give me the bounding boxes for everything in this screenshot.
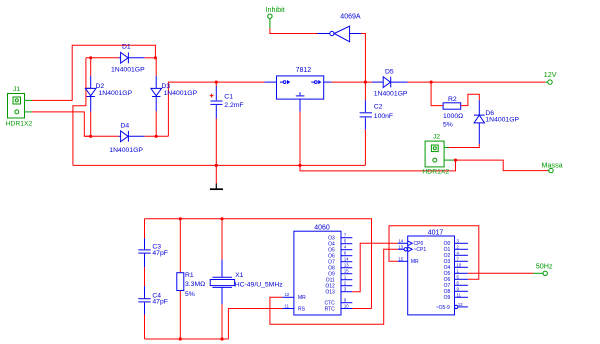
svg-text:HDR1X2: HDR1X2	[6, 121, 33, 128]
pin 11 O9	[455, 296, 468, 298]
pin 5 O4	[341, 243, 352, 245]
wire R2 to D6 top	[461, 94, 480, 105]
wire rail down to R2	[431, 82, 443, 106]
junction X1 top rail	[220, 217, 223, 220]
pin 15 O9	[341, 273, 352, 275]
junction R2 branch on rail	[430, 81, 433, 84]
svg-text:10: 10	[457, 262, 462, 267]
inverter U1 4069A	[317, 14, 361, 42]
svg-text:HDR1X2: HDR1X2	[422, 168, 449, 175]
junction C1 bottom rail	[215, 164, 218, 167]
diode D1	[111, 44, 145, 74]
regulator U2 7812	[265, 67, 332, 112]
wire oscillator top rail	[145, 219, 372, 309]
svg-text:7812: 7812	[296, 67, 312, 74]
wire 7812 ground lead	[299, 112, 301, 166]
wire bridge top	[86, 57, 119, 59]
pin 1 O5	[455, 272, 468, 274]
diode D2	[85, 76, 132, 112]
wire C2 leads	[364, 82, 366, 100]
svg-text:15: 15	[398, 256, 403, 261]
svg-text:C1: C1	[224, 93, 233, 100]
pin 4 O5	[341, 249, 352, 251]
ground	[210, 165, 223, 189]
wire oscillator bottom rail	[145, 338, 229, 340]
wire 4060 MR to 4017 CP1	[270, 249, 398, 324]
svg-text:D1: D1	[122, 44, 131, 51]
svg-text:4017: 4017	[428, 230, 444, 237]
wire ground rail	[73, 164, 366, 166]
svg-text:11: 11	[457, 292, 462, 297]
svg-text:13: 13	[344, 263, 349, 268]
wire X1 column	[221, 219, 223, 260]
junction C1 top	[215, 81, 218, 84]
svg-text:11: 11	[285, 303, 290, 308]
capacitor C1	[210, 82, 244, 165]
pin 2 O12	[341, 285, 352, 287]
wire C3 C4 column	[144, 219, 146, 239]
wire DC output riser	[168, 82, 264, 136]
wire 7812 output rail to 12V	[332, 81, 372, 83]
node Massa	[542, 160, 563, 172]
svg-text:5%: 5%	[443, 122, 453, 129]
svg-text:1000Ω: 1000Ω	[443, 113, 463, 120]
svg-text:~O5-9: ~O5-9	[436, 305, 450, 311]
pin 7 O3	[455, 260, 468, 262]
svg-text:RTC: RTC	[325, 306, 336, 312]
pin 14 O7	[341, 261, 352, 263]
node Inhibit	[266, 5, 285, 28]
svg-text:C2: C2	[374, 104, 383, 111]
svg-text:R2: R2	[448, 96, 457, 103]
svg-text:13: 13	[398, 244, 403, 249]
svg-text:50Hz: 50Hz	[536, 261, 553, 270]
svg-text:R1: R1	[185, 272, 194, 279]
svg-text:HC-49/U_5MHz: HC-49/U_5MHz	[235, 281, 284, 288]
IC U3 4060	[282, 225, 352, 315]
svg-text:J2: J2	[433, 133, 440, 140]
svg-text:47pF: 47pF	[152, 299, 168, 306]
svg-text:1N4001GP: 1N4001GP	[485, 116, 519, 123]
junction massa link	[454, 159, 457, 162]
svg-text:4060: 4060	[314, 225, 330, 232]
junction bridge top-right	[154, 56, 157, 59]
pin 3 O13	[341, 291, 352, 293]
pin 13 CP1	[398, 248, 404, 250]
diode D5	[372, 69, 408, 98]
svg-text:100nF: 100nF	[374, 113, 393, 120]
pin 11 RS	[282, 308, 294, 310]
wire R1 column	[179, 219, 181, 273]
resistor R2	[443, 96, 463, 128]
crystal X1	[210, 260, 283, 305]
svg-text:~CP1: ~CP1	[414, 247, 427, 253]
pin 14 CP0	[398, 242, 408, 244]
wire J2 pin2 to Massa	[454, 160, 548, 171]
pin 5 O6	[455, 278, 468, 280]
svg-text:X1: X1	[235, 272, 244, 279]
pin 9 CTC	[341, 302, 352, 304]
pin 12 MR	[282, 296, 294, 298]
wire D6 bottom to J2 pin1	[449, 144, 480, 147]
wire D3 leads	[155, 58, 157, 76]
wire bridge bottom	[84, 135, 118, 137]
junction inverter column on rail	[364, 81, 367, 84]
wire J1 pin2 to bridge bottom	[32, 112, 91, 136]
svg-text:4069A: 4069A	[340, 14, 361, 21]
wire D2 leads	[90, 58, 92, 76]
svg-text:O9: O9	[444, 295, 451, 301]
svg-text:1N4001GP: 1N4001GP	[111, 66, 145, 73]
svg-text:1N4001GP: 1N4001GP	[109, 147, 143, 154]
svg-text:1N4001GP: 1N4001GP	[99, 90, 133, 97]
diode D6	[474, 100, 519, 144]
pin 6 O6	[341, 255, 352, 257]
pin 4 O2	[455, 254, 468, 256]
svg-text:1N4001GP: 1N4001GP	[164, 90, 198, 97]
wire O5 to 50Hz	[468, 272, 534, 274]
svg-text:2.2mF: 2.2mF	[224, 102, 243, 109]
resistor R1	[177, 272, 205, 298]
connector J2	[422, 133, 454, 175]
pin 6 O7	[455, 284, 468, 286]
capacitor C3	[138, 238, 168, 267]
junction R1 bottom rail	[179, 337, 182, 340]
node 12V	[544, 70, 557, 84]
svg-text:D3: D3	[162, 83, 171, 90]
svg-text:12: 12	[285, 292, 290, 297]
svg-text:MR: MR	[298, 295, 306, 301]
diode D4	[109, 122, 144, 154]
svg-text:5%: 5%	[185, 291, 195, 298]
svg-text:RS: RS	[298, 306, 306, 312]
junction X1 bottom rail	[220, 337, 223, 340]
svg-text:MR: MR	[411, 259, 419, 265]
junction bridge bottom-left	[89, 135, 92, 138]
pin 2 O1	[455, 248, 468, 250]
svg-text:14: 14	[344, 257, 349, 262]
svg-text:14: 14	[398, 238, 403, 243]
pin 1 O11	[341, 279, 352, 281]
node 50Hz	[533, 261, 553, 275]
svg-text:Inhibit: Inhibit	[266, 5, 285, 14]
capacitor C2	[360, 100, 393, 130]
svg-text:D4: D4	[121, 122, 130, 129]
wire Inhibit to inverter	[270, 28, 317, 34]
svg-text:47pF: 47pF	[152, 250, 168, 257]
diode D3	[151, 76, 198, 111]
pin 15 MR	[398, 260, 408, 262]
junction 7812 ground rail	[298, 164, 301, 167]
pin 7 O3	[341, 237, 352, 239]
junction bridge bottom-right	[155, 135, 158, 138]
pin 10 RTC	[341, 308, 352, 310]
wire RTC to top rail column	[352, 308, 371, 310]
svg-text:3.3MΩ: 3.3MΩ	[185, 281, 205, 288]
wire inverter output down to rail	[361, 34, 365, 83]
wire bridge left mid to ground rail	[86, 58, 91, 89]
wire 4017 MR to O6 loop	[389, 226, 479, 280]
wire O13 to 4017 CP0	[352, 243, 398, 291]
junction bridge top-left	[89, 56, 92, 59]
svg-text:1N4001GP: 1N4001GP	[374, 90, 408, 97]
pin 12 nO5-9	[455, 305, 458, 308]
wire ground rail to massa link	[300, 160, 456, 171]
pin 3 O0	[455, 242, 468, 244]
wire RS to bottom rail	[228, 309, 282, 340]
svg-text:Massa: Massa	[542, 160, 563, 169]
connector J1	[6, 86, 33, 128]
svg-text:O13: O13	[325, 290, 335, 296]
svg-text:D5: D5	[385, 69, 394, 76]
svg-text:10: 10	[344, 304, 349, 309]
pin 9 O8	[455, 290, 468, 292]
svg-text:15: 15	[344, 269, 349, 274]
pin 10 O4	[455, 266, 468, 268]
svg-text:12: 12	[458, 302, 463, 307]
junction R1 top rail	[179, 217, 182, 220]
svg-text:12V: 12V	[544, 70, 557, 79]
capacitor C4	[138, 286, 168, 314]
pin 13 O8	[341, 267, 352, 269]
IC U4 4017	[398, 230, 468, 315]
svg-text:D2: D2	[96, 83, 105, 90]
svg-text:J1: J1	[13, 86, 20, 93]
wire J1 pin1 to outer top	[32, 45, 155, 100]
